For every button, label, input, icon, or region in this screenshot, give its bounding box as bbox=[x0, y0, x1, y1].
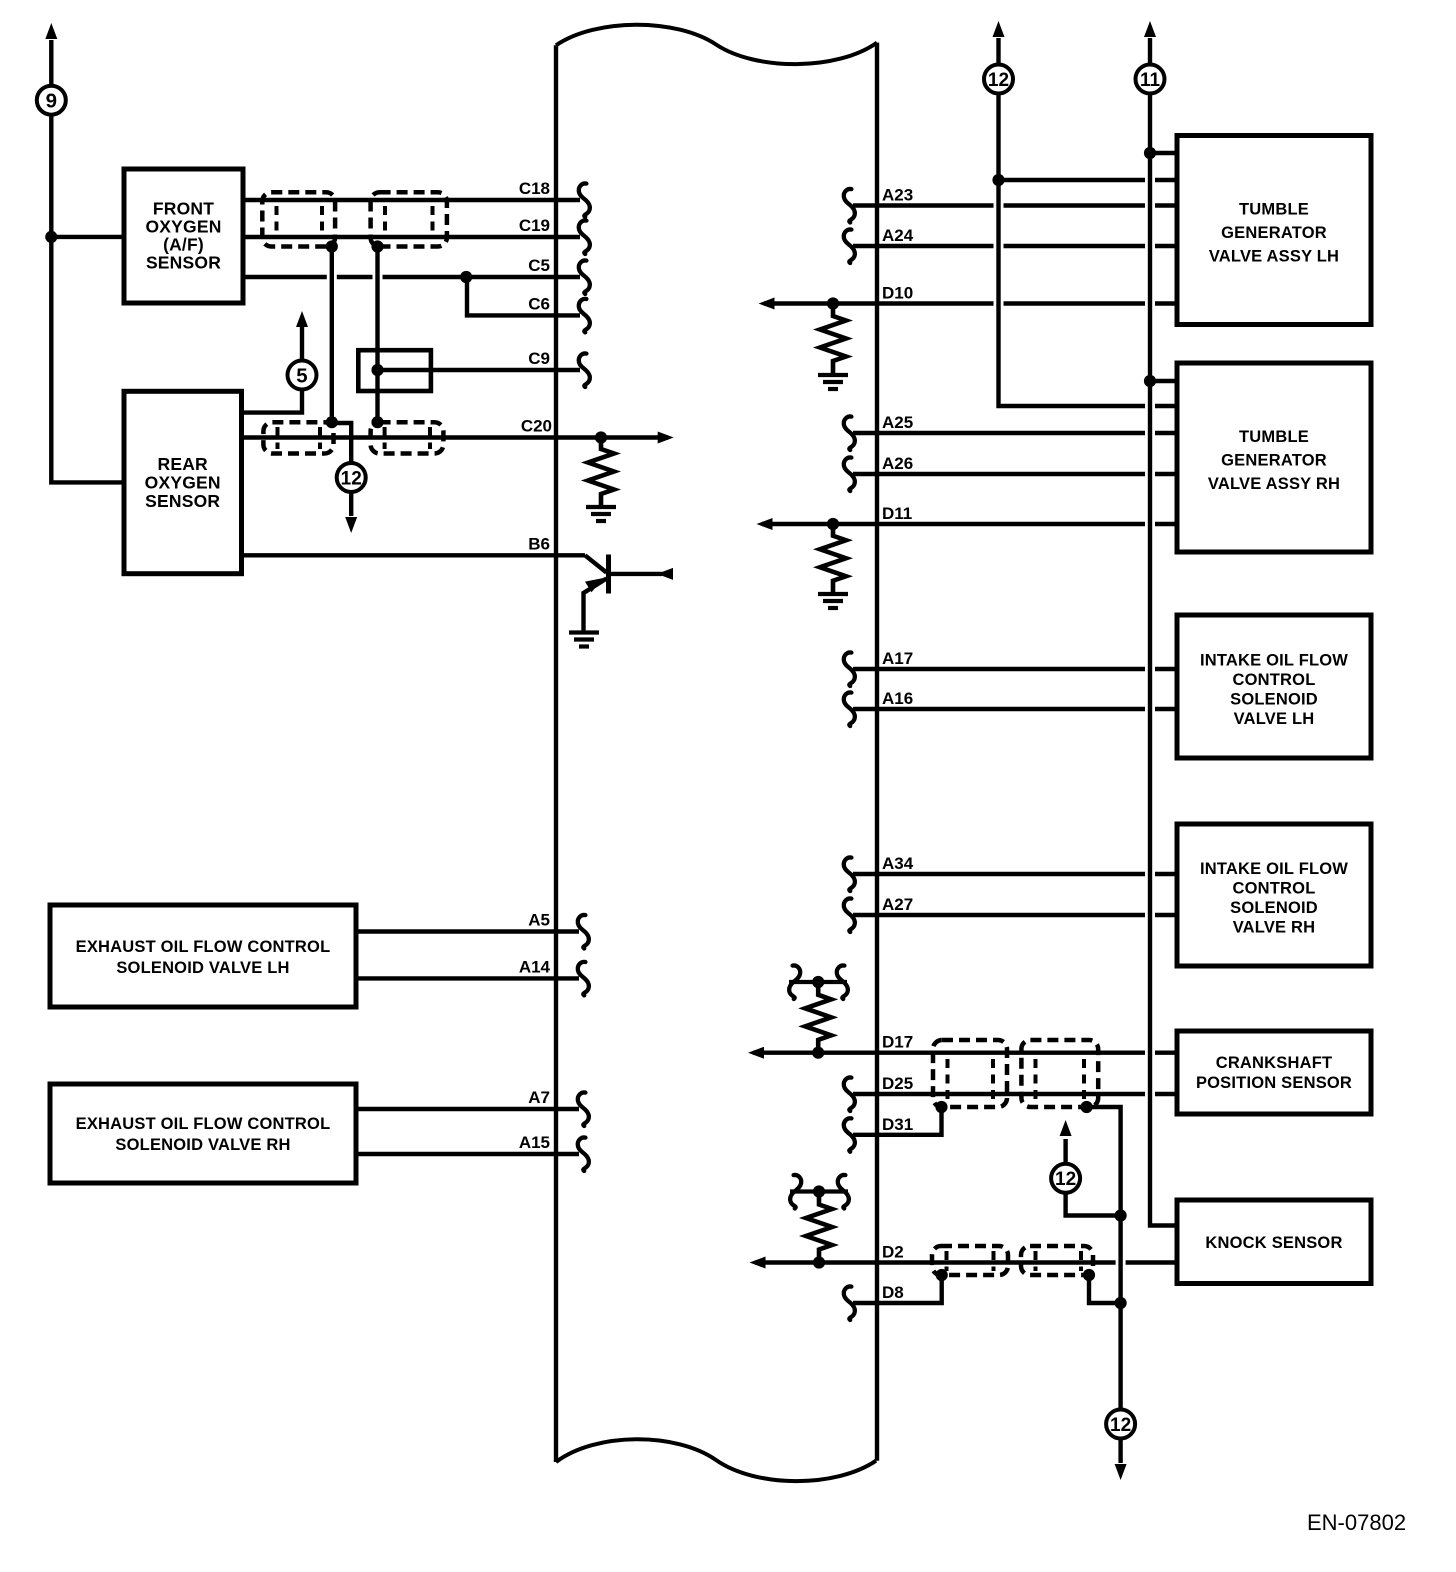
junction shield C20 drain1 bbox=[326, 416, 338, 428]
svg-text:B6: B6 bbox=[528, 534, 550, 553]
junction tumble RH pin1 bbox=[1144, 375, 1156, 387]
resistor R-D2 bbox=[806, 1192, 832, 1263]
svg-text:CONTROL: CONTROL bbox=[1233, 879, 1316, 897]
svg-text:VALVE ASSY RH: VALVE ASSY RH bbox=[1208, 475, 1340, 493]
svg-text:A5: A5 bbox=[528, 911, 550, 930]
svg-text:A17: A17 bbox=[882, 649, 913, 668]
svg-text:A7: A7 bbox=[528, 1088, 550, 1107]
shield pair C18/C19 box 2 bbox=[371, 192, 447, 246]
wire A5 bbox=[356, 929, 579, 933]
node 12 bottom line bbox=[1118, 1438, 1122, 1463]
svg-text:EXHAUST OIL FLOW CONTROL: EXHAUST OIL FLOW CONTROL bbox=[76, 1115, 331, 1133]
tumble generator valve assy RH box bbox=[1177, 363, 1371, 552]
ECM block right edge bbox=[875, 43, 879, 1461]
svg-text:12: 12 bbox=[341, 468, 362, 489]
svg-text:C18: C18 bbox=[519, 179, 550, 198]
junction shield pair1 drain2 bbox=[371, 240, 383, 252]
transistor Q1 bar bbox=[606, 555, 611, 594]
svg-text:A16: A16 bbox=[882, 689, 913, 708]
wire D2 bbox=[755, 1260, 1177, 1264]
svg-text:D17: D17 bbox=[882, 1033, 913, 1052]
svg-text:A24: A24 bbox=[882, 226, 914, 245]
wire C20 bbox=[242, 435, 669, 439]
front oxygen sensor box bbox=[124, 169, 243, 303]
connector A25 bbox=[844, 416, 855, 450]
shield pair C18/C19 box 1 bbox=[262, 192, 335, 246]
node 12 top circle bbox=[984, 65, 1013, 94]
wire tumble RH pin1 bbox=[1150, 379, 1177, 383]
node 11 circle bbox=[1136, 65, 1165, 94]
ground D11 resistor bbox=[818, 592, 848, 596]
wire C6 bbox=[467, 277, 580, 315]
junction shield D17/D25 left bbox=[935, 1101, 947, 1113]
svg-text:C20: C20 bbox=[521, 417, 552, 436]
node 12 mid circle bbox=[1051, 1164, 1080, 1193]
arrow D17 left bbox=[748, 1047, 764, 1059]
connector A23 bbox=[844, 189, 855, 223]
ECM top break wave bbox=[556, 25, 877, 64]
wire A23 bbox=[853, 203, 1177, 207]
node 12 left circle bbox=[337, 463, 366, 492]
shield D2 drain stub bbox=[1089, 1275, 1121, 1303]
C9 joint box bbox=[358, 350, 431, 391]
transistor Q1 base lead bbox=[585, 555, 607, 572]
svg-text:A26: A26 bbox=[882, 454, 913, 473]
connector A34 bbox=[844, 857, 855, 891]
svg-text:9: 9 bbox=[46, 90, 57, 113]
wire tumble LH pin2 bbox=[999, 178, 1178, 182]
arrow node 12 left bbox=[345, 517, 357, 533]
shield drain wire 2 bbox=[375, 247, 379, 424]
svg-text:C6: C6 bbox=[528, 294, 550, 313]
connector A26 bbox=[844, 457, 855, 491]
wire A7 bbox=[356, 1107, 579, 1111]
junction tumble LH pin1 bbox=[1144, 147, 1156, 159]
junction C20/resistor bbox=[595, 431, 607, 443]
ground C20 resistor bbox=[586, 505, 616, 509]
shield pair D17/D25 box 1 bbox=[933, 1040, 1007, 1107]
exhaust oil flow control solenoid valve RH box bbox=[50, 1084, 356, 1183]
junction drain/C9 bbox=[371, 364, 383, 376]
svg-text:A34: A34 bbox=[882, 854, 914, 873]
svg-text:D10: D10 bbox=[882, 284, 913, 303]
wire tumble LH pin1 bbox=[1150, 151, 1177, 155]
svg-text:VALVE ASSY LH: VALVE ASSY LH bbox=[1209, 247, 1339, 265]
svg-text:12: 12 bbox=[1055, 1169, 1076, 1190]
connector A7 bbox=[578, 1092, 589, 1126]
node 11 bus casing bbox=[1145, 95, 1155, 1223]
shield D2 box 2 bbox=[1021, 1246, 1093, 1275]
arrow node 11 top bbox=[1144, 21, 1156, 37]
wire D17 bbox=[753, 1050, 1177, 1054]
resistor R-D11 bbox=[820, 524, 846, 593]
junction node9/front-oxygen bbox=[45, 231, 57, 243]
shield D2 box 1 bbox=[932, 1246, 1008, 1275]
svg-text:SENSOR: SENSOR bbox=[146, 253, 221, 273]
transistor Q1 emitter lead bbox=[584, 579, 607, 632]
connector C5 bbox=[579, 260, 590, 294]
svg-text:A14: A14 bbox=[519, 957, 551, 976]
ground D10 resistor bbox=[818, 373, 848, 377]
wire C19 bbox=[243, 235, 580, 239]
arrow D2 left bbox=[750, 1257, 766, 1269]
svg-text:OXYGEN: OXYGEN bbox=[145, 473, 221, 493]
wire A27 bbox=[853, 913, 1177, 917]
junction D10/resistor bbox=[827, 297, 839, 309]
node 11 bus bbox=[1150, 38, 1177, 1226]
wire D10 bbox=[764, 301, 1177, 305]
junction shield bracket D17 bbox=[812, 976, 824, 988]
svg-text:FRONT: FRONT bbox=[153, 199, 214, 219]
svg-text:C5: C5 bbox=[528, 256, 550, 275]
svg-text:CONTROL: CONTROL bbox=[1233, 671, 1316, 689]
svg-text:D25: D25 bbox=[882, 1074, 913, 1093]
junction D11/resistor bbox=[827, 518, 839, 530]
connector D31 bbox=[844, 1118, 855, 1152]
wire D11 bbox=[762, 522, 1177, 526]
connector D8 bbox=[844, 1286, 855, 1320]
wire A34 bbox=[853, 872, 1177, 876]
svg-text:EN-07802: EN-07802 bbox=[1307, 1510, 1406, 1535]
svg-text:D8: D8 bbox=[882, 1283, 904, 1302]
wire A16 bbox=[853, 707, 1177, 711]
rear oxygen sensor box bbox=[124, 391, 242, 573]
junction D2/resistor bbox=[813, 1256, 825, 1268]
connector C18 bbox=[579, 183, 590, 217]
svg-text:OXYGEN: OXYGEN bbox=[145, 217, 221, 237]
svg-text:SOLENOID VALVE RH: SOLENOID VALVE RH bbox=[115, 1136, 290, 1154]
wire C5 bbox=[243, 275, 580, 279]
svg-text:EXHAUST OIL FLOW CONTROL: EXHAUST OIL FLOW CONTROL bbox=[76, 938, 331, 956]
intake oil flow control solenoid valve LH box bbox=[1177, 615, 1371, 758]
svg-text:KNOCK SENSOR: KNOCK SENSOR bbox=[1205, 1234, 1342, 1252]
shield C20 box 1 bbox=[263, 422, 333, 453]
svg-text:GENERATOR: GENERATOR bbox=[1221, 451, 1327, 469]
connector A16 bbox=[844, 692, 855, 726]
svg-text:SOLENOID: SOLENOID bbox=[1230, 899, 1318, 917]
node 5 line bbox=[242, 326, 303, 413]
svg-text:INTAKE OIL FLOW: INTAKE OIL FLOW bbox=[1200, 651, 1348, 669]
node 12 bottom circle bbox=[1106, 1410, 1135, 1439]
connector C6 bbox=[579, 299, 590, 333]
shield drain wire 2 casing bbox=[373, 249, 383, 421]
junction shield C20 drain2 bbox=[371, 416, 383, 428]
connector C19 bbox=[579, 220, 590, 254]
arrow C20 right bbox=[658, 432, 674, 444]
shield drain bracket D17 bbox=[789, 965, 800, 999]
knock shield bus bbox=[1087, 1107, 1121, 1410]
junction shield bracket D2 bbox=[813, 1185, 825, 1197]
svg-text:SOLENOID: SOLENOID bbox=[1230, 690, 1318, 708]
svg-text:VALVE LH: VALVE LH bbox=[1234, 710, 1315, 728]
wire D31 bbox=[853, 1107, 942, 1135]
node 12 left line bbox=[332, 423, 351, 516]
wire D25 bbox=[853, 1092, 1177, 1096]
svg-text:D2: D2 bbox=[882, 1243, 904, 1262]
svg-text:D31: D31 bbox=[882, 1115, 913, 1134]
svg-text:POSITION SENSOR: POSITION SENSOR bbox=[1196, 1074, 1352, 1092]
junction shield D17/D25 right bbox=[1081, 1101, 1093, 1113]
wire A14 bbox=[356, 976, 579, 980]
wire C9 bbox=[378, 368, 581, 372]
shield C20 box 2 bbox=[371, 422, 444, 453]
node 5 circle bbox=[288, 361, 317, 390]
connector A24 bbox=[844, 229, 855, 263]
intake oil flow control solenoid valve RH box bbox=[1177, 824, 1371, 966]
shield drain wire 1 bbox=[330, 247, 334, 423]
svg-text:12: 12 bbox=[988, 70, 1009, 91]
arrow D11 left bbox=[757, 518, 773, 530]
shield drain wire 1 casing bbox=[327, 249, 337, 420]
junction D17/resistor bbox=[812, 1047, 824, 1059]
arrow D10 left bbox=[759, 298, 775, 310]
tumble generator valve assy LH box bbox=[1177, 136, 1371, 325]
crankshaft position sensor box bbox=[1177, 1031, 1371, 1114]
svg-text:C19: C19 bbox=[519, 216, 550, 235]
svg-text:5: 5 bbox=[296, 364, 307, 387]
shield drain bracket D2 bbox=[790, 1175, 801, 1209]
svg-text:(A/F): (A/F) bbox=[163, 235, 204, 255]
junction tumble LH pin2 bbox=[992, 174, 1004, 186]
node 12 top bus casing bbox=[994, 95, 1004, 404]
resistor R-C20 bbox=[588, 438, 614, 506]
wire front oxygen ground bbox=[51, 235, 124, 239]
connector A17 bbox=[844, 652, 855, 686]
wire A15 bbox=[356, 1152, 579, 1156]
node 12 mid line bbox=[1066, 1139, 1121, 1216]
wire D8 bbox=[853, 1275, 942, 1303]
wire A17 bbox=[853, 667, 1177, 671]
svg-text:REAR: REAR bbox=[158, 454, 209, 474]
exhaust oil flow control solenoid valve LH box bbox=[50, 905, 356, 1007]
knock sensor box bbox=[1177, 1200, 1371, 1284]
transistor Q1 emitter arrow bbox=[585, 578, 604, 592]
svg-text:A15: A15 bbox=[519, 1133, 550, 1152]
connector D25 bbox=[844, 1077, 855, 1111]
svg-text:12: 12 bbox=[1110, 1415, 1131, 1436]
svg-text:INTAKE OIL FLOW: INTAKE OIL FLOW bbox=[1200, 860, 1348, 878]
arrow node 12 bottom bbox=[1115, 1464, 1127, 1480]
wire A26 bbox=[853, 472, 1177, 476]
svg-text:TUMBLE: TUMBLE bbox=[1239, 200, 1309, 218]
ECM block left edge bbox=[554, 45, 558, 1462]
svg-text:A25: A25 bbox=[882, 413, 913, 432]
wire C18 bbox=[243, 198, 580, 202]
connector A5 bbox=[578, 915, 589, 949]
svg-text:A27: A27 bbox=[882, 895, 913, 914]
wire A25 bbox=[853, 431, 1177, 435]
arrow node 9 bbox=[45, 23, 57, 39]
svg-text:VALVE RH: VALVE RH bbox=[1233, 918, 1316, 936]
connector C9 bbox=[579, 353, 590, 387]
ECM bottom break wave bbox=[556, 1439, 876, 1481]
wire B6 bbox=[242, 553, 586, 557]
svg-text:11: 11 bbox=[1140, 70, 1161, 91]
junction knock bus / node12 mid bbox=[1115, 1209, 1127, 1221]
junction C5/C6 bbox=[460, 271, 472, 283]
wire A24 bbox=[853, 244, 1177, 248]
svg-text:SOLENOID VALVE LH: SOLENOID VALVE LH bbox=[116, 959, 289, 977]
transistor Q1 collector lead bbox=[609, 572, 663, 576]
resistor R-D10 bbox=[820, 304, 846, 374]
node 12 top bus bbox=[999, 38, 1178, 406]
junction knock bus / D8 shield bbox=[1115, 1297, 1127, 1309]
arrow node 12 mid bbox=[1060, 1120, 1072, 1136]
svg-text:D11: D11 bbox=[882, 504, 912, 523]
node 9 circle bbox=[37, 86, 66, 115]
arrow node 12 top bbox=[993, 21, 1005, 37]
node 9 line bbox=[51, 40, 123, 482]
svg-text:TUMBLE: TUMBLE bbox=[1239, 428, 1309, 446]
arrow node 5 bbox=[296, 311, 308, 327]
connector A27 bbox=[844, 898, 855, 932]
connector A14 bbox=[578, 962, 589, 996]
svg-text:SENSOR: SENSOR bbox=[145, 491, 220, 511]
svg-text:CRANKSHAFT: CRANKSHAFT bbox=[1216, 1054, 1333, 1072]
junction shield D2 right bbox=[1083, 1269, 1095, 1281]
connector A15 bbox=[578, 1137, 589, 1171]
svg-text:GENERATOR: GENERATOR bbox=[1221, 224, 1327, 242]
knock shield bus casing bbox=[1116, 1109, 1126, 1410]
junction shield D2 left bbox=[936, 1269, 948, 1281]
ground transistor emitter bbox=[569, 630, 599, 634]
shield pair D17/D25 box 2 bbox=[1021, 1040, 1098, 1107]
resistor R-D17 bbox=[805, 982, 831, 1053]
transistor Q1 collector arrow bbox=[657, 568, 673, 580]
svg-text:A23: A23 bbox=[882, 186, 913, 205]
svg-text:C9: C9 bbox=[528, 349, 550, 368]
junction shield pair1 drain1 bbox=[326, 240, 338, 252]
